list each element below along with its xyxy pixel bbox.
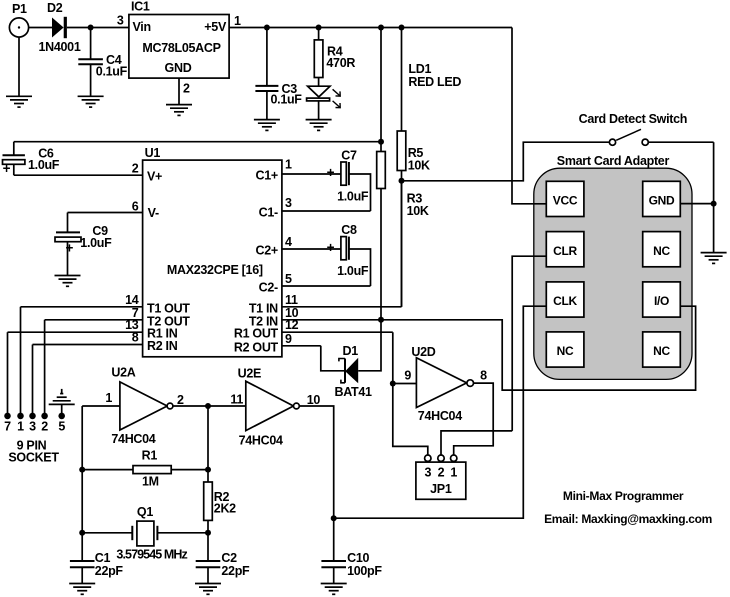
- svg-text:P1: P1: [12, 2, 27, 16]
- wire: [13, 142, 15, 156]
- svg-text:10K: 10K: [407, 204, 429, 218]
- contact CLK: [546, 282, 584, 317]
- svg-text:GND: GND: [649, 194, 675, 208]
- node: [316, 25, 322, 31]
- svg-text:1.0uF: 1.0uF: [337, 264, 369, 278]
- svg-text:MC78L05ACP: MC78L05ACP: [142, 41, 220, 55]
- wire: [173, 405, 246, 407]
- ground: [55, 276, 81, 287]
- wire: [207, 533, 209, 561]
- svg-text:470R: 470R: [326, 56, 355, 70]
- svg-text:4: 4: [285, 235, 292, 249]
- wire: [82, 469, 133, 471]
- svg-text:U1: U1: [145, 146, 161, 160]
- svg-text:C1+: C1+: [256, 169, 278, 183]
- svg-text:C7: C7: [341, 149, 357, 163]
- svg-text:2: 2: [41, 419, 48, 433]
- smart card adapter body: [534, 154, 692, 379]
- pin C1+: [256, 157, 341, 182]
- wire: [334, 306, 547, 518]
- svg-text:3.579545 MHz: 3.579545 MHz: [116, 547, 187, 561]
- wire: [207, 567, 209, 583]
- ground flipped: [49, 389, 75, 405]
- svg-text:6: 6: [132, 200, 139, 214]
- ground: [6, 96, 32, 107]
- node: [399, 25, 405, 31]
- wire: [18, 37, 20, 96]
- wire: [61, 404, 63, 413]
- svg-text:GND: GND: [165, 61, 192, 75]
- wire: [401, 171, 403, 181]
- node: [79, 467, 85, 473]
- pin R2 IN: [33, 331, 178, 354]
- pin C1-: [259, 196, 371, 220]
- wire: [340, 173, 342, 175]
- diode D2: [39, 1, 81, 54]
- wire: [29, 27, 52, 29]
- svg-text:22pF: 22pF: [95, 564, 124, 578]
- svg-text:NC: NC: [653, 244, 670, 258]
- svg-text:8: 8: [480, 369, 487, 383]
- svg-text:JP1: JP1: [430, 482, 452, 496]
- diode D1 BAT41: [335, 344, 373, 399]
- email: [544, 512, 712, 526]
- label 9 PIN SOCKET: [8, 438, 59, 464]
- node: [399, 178, 405, 184]
- pin T1 IN: [249, 293, 402, 316]
- wire: [67, 27, 129, 29]
- wire R1OUT to U2D: [393, 332, 428, 455]
- wire: [333, 518, 335, 561]
- svg-text:3: 3: [117, 14, 124, 28]
- pin 2 label: [183, 81, 190, 95]
- svg-text:Q1: Q1: [137, 505, 153, 519]
- wire: [90, 28, 92, 60]
- svg-text:8: 8: [132, 331, 139, 345]
- pin 3 label: [117, 14, 124, 28]
- pin T2 IN: [249, 306, 299, 329]
- svg-text:9: 9: [285, 332, 292, 346]
- pin 1 label: [234, 14, 241, 28]
- title: [563, 489, 684, 503]
- wire: [333, 567, 335, 583]
- svg-text:3: 3: [285, 196, 292, 210]
- wire: [680, 203, 713, 205]
- svg-text:R1: R1: [142, 449, 158, 463]
- node: [378, 139, 384, 145]
- svg-text:U2A: U2A: [111, 366, 135, 380]
- svg-text:2: 2: [177, 393, 184, 407]
- ground: [78, 96, 104, 107]
- wire: [81, 470, 83, 533]
- pin C2-: [259, 272, 371, 295]
- svg-text:MAX232CPE [16]: MAX232CPE [16]: [167, 263, 263, 277]
- ground: [195, 584, 221, 595]
- svg-text:+: +: [327, 240, 335, 255]
- wire: [358, 320, 381, 371]
- svg-text:10K: 10K: [408, 158, 430, 172]
- node: [205, 403, 211, 409]
- node: [711, 201, 717, 207]
- jumper JP1: [416, 455, 466, 499]
- svg-text:R2 OUT: R2 OUT: [234, 340, 279, 354]
- capacitor C10: [321, 551, 382, 578]
- svg-text:C1-: C1-: [259, 206, 278, 220]
- inverter U2E: [230, 367, 320, 448]
- svg-text:NC: NC: [557, 344, 574, 358]
- ground: [701, 253, 727, 264]
- ground: [321, 584, 347, 595]
- contact IO: [643, 282, 681, 317]
- node: [378, 25, 384, 31]
- pin T2 OUT: [45, 306, 191, 329]
- wire: [713, 142, 715, 252]
- svg-text:C1: C1: [95, 551, 111, 565]
- svg-text:+: +: [327, 165, 335, 180]
- wire: [82, 405, 120, 407]
- svg-text:CLR: CLR: [553, 244, 577, 258]
- node: [331, 515, 337, 521]
- ground: [69, 584, 95, 595]
- capacitor C4: [78, 53, 127, 78]
- svg-text:12: 12: [285, 318, 299, 332]
- svg-text:2: 2: [438, 465, 445, 479]
- svg-text:3: 3: [424, 465, 431, 479]
- svg-text:U2D: U2D: [411, 345, 435, 359]
- svg-text:T1 IN: T1 IN: [249, 301, 278, 315]
- contact NC 1: [643, 232, 681, 267]
- svg-text:10: 10: [307, 393, 321, 407]
- svg-text:5: 5: [58, 419, 65, 433]
- IC U1 MAX232: [143, 146, 282, 357]
- svg-text:14: 14: [125, 293, 139, 307]
- ground: [254, 120, 280, 131]
- resistor R4: [314, 40, 355, 78]
- wire JP1 pin2: [441, 431, 512, 455]
- wire C7 loop: [349, 174, 371, 211]
- node: [264, 25, 270, 31]
- pin R1 OUT: [234, 318, 393, 341]
- resistor R3: [377, 152, 429, 218]
- wire: [401, 28, 403, 132]
- pin V-: [68, 200, 159, 221]
- wire: [171, 469, 208, 471]
- wire C8 loop: [349, 249, 371, 286]
- svg-text:C2-: C2-: [259, 281, 278, 295]
- svg-text:U2E: U2E: [238, 367, 261, 381]
- svg-text:1: 1: [285, 157, 292, 171]
- wire: [20, 307, 22, 413]
- svg-text:0.1uF: 0.1uF: [96, 65, 128, 79]
- capacitor C1: [70, 551, 124, 578]
- svg-text:1.0uF: 1.0uF: [337, 189, 369, 203]
- contact VCC: [546, 181, 584, 216]
- wire T1IN to R5: [401, 181, 403, 307]
- svg-text:11: 11: [285, 293, 298, 307]
- svg-text:9: 9: [404, 369, 411, 383]
- wire: [321, 346, 345, 371]
- svg-text:RED LED: RED LED: [408, 75, 461, 89]
- wire: [401, 181, 403, 307]
- svg-text:2: 2: [183, 81, 190, 95]
- wire C6 top rail: [14, 141, 381, 143]
- wire +5V rail: [229, 27, 512, 29]
- resistor R2: [204, 482, 236, 520]
- wire +5V to VCC: [512, 28, 546, 204]
- wire: [393, 383, 417, 385]
- wire: [318, 78, 320, 87]
- wire: [178, 78, 180, 105]
- wire: [318, 28, 320, 40]
- svg-text:V+: V+: [147, 169, 162, 183]
- wire: [32, 345, 34, 414]
- svg-text:LD1: LD1: [408, 62, 431, 76]
- svg-text:1: 1: [450, 465, 457, 479]
- svg-text:1.0uF: 1.0uF: [80, 236, 112, 250]
- node: [205, 530, 211, 536]
- wire: [44, 320, 46, 413]
- svg-text:Email: Maxking@maxking.com: Email: Maxking@maxking.com: [544, 512, 712, 526]
- switch card detect: [579, 112, 688, 145]
- wire: [512, 256, 546, 431]
- pin V+: [14, 161, 162, 183]
- svg-text:3: 3: [29, 419, 36, 433]
- node VIN junction: [88, 25, 94, 31]
- resistor R1: [133, 449, 171, 489]
- wire: [81, 406, 83, 470]
- capacitor C9: [55, 224, 112, 256]
- wire: [13, 164, 15, 175]
- svg-text:22pF: 22pF: [221, 564, 250, 578]
- contact NC 2: [546, 332, 584, 367]
- svg-text:+5V: +5V: [204, 20, 227, 34]
- svg-text:BAT41: BAT41: [335, 385, 373, 399]
- inverter U2D: [404, 345, 487, 423]
- connector P1: [9, 2, 28, 37]
- svg-text:VCC: VCC: [553, 194, 578, 208]
- svg-text:Mini-Max Programmer: Mini-Max Programmer: [563, 489, 684, 503]
- svg-text:C10: C10: [347, 551, 369, 565]
- svg-text:100pF: 100pF: [347, 564, 382, 578]
- wire: [266, 91, 268, 120]
- wire: [81, 567, 83, 583]
- svg-text:T1 OUT: T1 OUT: [147, 301, 190, 315]
- svg-text:1: 1: [17, 419, 24, 433]
- wire: [82, 532, 132, 534]
- svg-text:D2: D2: [47, 1, 63, 15]
- svg-text:2K2: 2K2: [214, 502, 236, 516]
- wire: [7, 332, 9, 413]
- svg-text:C2: C2: [221, 551, 237, 565]
- svg-text:74HC04: 74HC04: [418, 409, 462, 423]
- svg-text:C8: C8: [341, 223, 357, 237]
- wire: [67, 242, 69, 276]
- wire: [318, 101, 320, 120]
- ground: [306, 120, 332, 131]
- svg-text:0.1uF: 0.1uF: [271, 93, 303, 107]
- node: [390, 381, 396, 387]
- svg-text:R2 IN: R2 IN: [147, 339, 178, 353]
- svg-text:+: +: [3, 161, 11, 176]
- ground: [166, 105, 192, 116]
- svg-text:11: 11: [230, 392, 243, 406]
- capacitor C6: [3, 146, 60, 176]
- svg-text:C2+: C2+: [256, 244, 278, 258]
- wire: [157, 532, 208, 534]
- node: [79, 530, 85, 536]
- wire U2D out: [454, 383, 494, 455]
- socket pins: [4, 413, 65, 434]
- wire: [299, 406, 333, 518]
- svg-text:SOCKET: SOCKET: [8, 451, 59, 465]
- svg-text:R1 OUT: R1 OUT: [234, 327, 279, 341]
- svg-text:Smart Card Adapter: Smart Card Adapter: [557, 154, 670, 168]
- svg-text:I/O: I/O: [654, 294, 669, 308]
- inverter U2A: [105, 366, 184, 446]
- crystal Q1: [116, 505, 187, 562]
- wire: [81, 533, 83, 561]
- contact CLR: [546, 232, 584, 267]
- pin C2+: [256, 235, 341, 258]
- wire: [207, 470, 209, 482]
- contact GND: [643, 181, 681, 216]
- wire: [380, 189, 382, 321]
- svg-text:7: 7: [4, 419, 11, 433]
- svg-text:Vin: Vin: [133, 20, 151, 34]
- node: [205, 467, 211, 473]
- wire: [67, 213, 69, 233]
- capacitor C2: [196, 551, 250, 578]
- svg-text:1N4001: 1N4001: [39, 40, 81, 54]
- resistor R5: [397, 131, 430, 172]
- svg-text:1: 1: [105, 391, 112, 405]
- wire I/O loop: [282, 306, 696, 390]
- svg-text:CLK: CLK: [553, 294, 577, 308]
- svg-text:IC1: IC1: [131, 0, 150, 14]
- pin R1 IN: [8, 318, 178, 341]
- node T2IN junction: [378, 317, 384, 323]
- pin T1 OUT: [21, 293, 191, 316]
- wire: [207, 520, 209, 532]
- capacitor C7: [327, 149, 369, 204]
- svg-text:D1: D1: [343, 344, 359, 358]
- wire: [402, 142, 610, 181]
- capacitor C8: [327, 223, 369, 278]
- svg-text:74HC04: 74HC04: [111, 432, 155, 446]
- svg-text:1M: 1M: [142, 475, 159, 489]
- contact NC 3: [643, 332, 681, 367]
- wire: [648, 141, 713, 143]
- wire: [380, 28, 382, 152]
- svg-text:1.0uF: 1.0uF: [28, 158, 60, 172]
- wire: [90, 64, 92, 96]
- svg-text:1: 1: [234, 14, 241, 28]
- capacitor C3: [255, 82, 302, 107]
- svg-text:2: 2: [132, 161, 139, 175]
- LED LD1: [307, 62, 462, 108]
- svg-text:NC: NC: [653, 344, 670, 358]
- svg-text:5: 5: [285, 272, 292, 286]
- pin R2 OUT: [234, 332, 321, 355]
- wire: [207, 406, 209, 470]
- svg-text:V-: V-: [148, 206, 159, 220]
- wire: [266, 28, 268, 86]
- svg-text:74HC04: 74HC04: [239, 433, 283, 447]
- svg-text:Card Detect Switch: Card Detect Switch: [579, 112, 688, 126]
- regulator IC1: [129, 0, 229, 78]
